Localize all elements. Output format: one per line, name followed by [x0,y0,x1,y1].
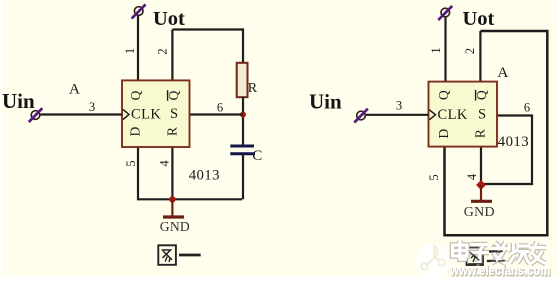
resistor R [237,63,248,97]
pin number 5 (U2) [427,174,441,180]
pin name S (U1) [170,106,178,122]
wire pin6 U2 (S input loop to GND junction) [481,116,532,185]
clock input triangle U2 [429,110,435,120]
svg-text:Uin: Uin [2,89,35,113]
svg-text:5: 5 [124,160,138,166]
wire resistor bottom to node 6 and capacitor [242,97,244,147]
wire pin1 U1 (connector to chip top) [137,16,139,82]
svg-text:R: R [248,81,258,96]
svg-text:www.elecfans.com: www.elecfans.com [449,262,550,278]
svg-text:Q: Q [474,90,489,100]
svg-text:Uot: Uot [463,8,495,30]
svg-text:CLK: CLK [438,107,468,123]
svg-text:Q: Q [436,90,451,100]
pin name R (U2) [473,129,488,138]
svg-text:Uin: Uin [309,90,342,114]
watermark logo (elecfans) [416,244,450,278]
wire pin4 U1 (R input to junction) [171,147,173,199]
wire Qbar to resistor top [172,30,243,64]
pin name R (U1) [165,127,180,136]
wire Uin to CLK pin 3 (node A) [41,113,123,115]
pin name CLK (U1) [131,106,161,122]
label R [248,81,258,96]
pin name S (U2) [478,107,486,123]
pin name Q (U2) [436,90,451,100]
pin number 3 (U1) [89,100,95,114]
label Uin (circuit 2) [309,90,342,114]
pin name Qbar (U2) [474,90,489,101]
connector Uot (circuit 1) [132,4,146,18]
svg-text:5: 5 [427,174,441,180]
svg-text:6: 6 [524,101,530,115]
svg-text:C: C [252,148,262,164]
pin number 1 (U2) [429,47,443,53]
page margin strips (bottom/left) [0,277,558,287]
pin number 6 (U1) [217,101,223,115]
pin number 3 (U2) [396,99,402,113]
svg-text:S: S [478,107,486,123]
wire pin4 U2 (R input to junction) [480,147,482,187]
watermark url www.elecfans.com [449,262,551,279]
ground rail wire (bottom, cap to pin4 junction) [172,198,242,200]
wire pin1 U2 (connector to chip top) [444,17,446,82]
connector Uin (circuit 2) [354,109,368,123]
connector Uin (circuit 1) [29,108,43,122]
svg-text:3: 3 [396,99,402,113]
pin number 2 (U1) [155,48,169,54]
capacitor C [230,146,255,154]
wire pin5 U1 (D input down and right to junction) [138,147,172,199]
part value 4013 (U2) [498,134,529,150]
node A label (circuit 1) [69,81,80,98]
svg-text:1: 1 [429,47,443,53]
label Uot (circuit 1) [153,8,185,30]
clock input triangle U1 [123,109,129,119]
figure label 2 strokes showing through watermark [468,251,505,263]
svg-text:4013: 4013 [498,134,529,150]
wire Uin to CLK pin 3 (U2) [366,114,429,116]
figure label 2 (tu er, partially covered by watermark) [467,248,506,266]
svg-text:D: D [128,126,143,136]
pin name Qbar (U1) [166,90,181,101]
svg-text:Q: Q [128,90,143,100]
svg-text:A: A [69,81,80,98]
pin number 5 (U1) [124,160,138,166]
label Uot (circuit 2) [463,8,495,30]
pin number 1 (U1) [123,48,137,54]
label Uin (circuit 1) [2,89,35,113]
pin number 6 (U2) [524,101,530,115]
svg-text:3: 3 [89,100,95,114]
IC U2 4013 body [429,82,498,147]
node A label (circuit 2) [497,64,508,81]
svg-text:Uot: Uot [153,8,185,30]
svg-text:R: R [165,127,180,136]
ground (circuit 1) [163,199,184,217]
pin name D (U2) [436,128,451,138]
wire pin2 U1 (chip top to corner) [171,30,173,82]
svg-text:4: 4 [465,173,479,180]
wire pin6 U1 (S input to node 6) [190,113,244,115]
pin name Q (U1) [128,90,143,100]
svg-text:Q: Q [166,90,181,100]
svg-text:A: A [497,64,508,81]
svg-text:D: D [436,128,451,138]
pin number 4 (U1) [157,160,171,167]
connector Uot (circuit 2) [438,6,452,20]
svg-text:GND: GND [464,205,495,220]
svg-text:CLK: CLK [131,106,161,122]
svg-text:2: 2 [155,48,169,54]
pin number 2 (U2) [463,48,477,54]
junction at GND node (circuit 2) [476,180,486,190]
pin name D (U1) [128,126,143,136]
svg-text:6: 6 [217,101,223,115]
label GND (circuit 2) [464,205,495,220]
node 6 junction [240,112,246,118]
part value 4013 (U1) [189,168,220,184]
svg-text:1: 1 [123,48,137,54]
svg-text:S: S [170,106,178,122]
wire pin2 U2 (chip top to corner) [479,31,481,82]
wire capacitor bottom to ground rail [242,154,244,199]
wire Qbar to D feedback loop (top, right, bottom) [445,31,548,235]
svg-text:4: 4 [157,160,171,167]
label C [252,148,262,164]
figure label 1 (tu yi) [158,245,200,264]
junction at GND node (circuit 1) [169,196,175,202]
svg-text:2: 2 [463,48,477,54]
svg-text:GND: GND [160,219,190,234]
label GND (circuit 1) [160,219,190,234]
pin number 4 (U2) [465,173,479,180]
pin name CLK (U2) [438,107,468,123]
svg-text:4013: 4013 [189,168,220,184]
ground (circuit 2) [471,185,492,201]
svg-text:R: R [473,129,488,138]
IC U1 4013 body [122,80,190,147]
